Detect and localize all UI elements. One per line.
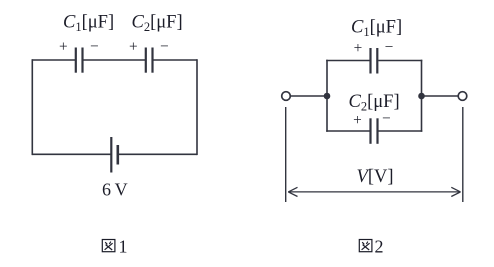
wire fig1 bottom-right segment [119,153,197,155]
svg-text:−: − [160,38,169,55]
svg-text:−: − [90,38,99,55]
svg-text:V[V]: V[V] [357,167,394,187]
svg-text:−: − [385,39,394,56]
node left junction [324,93,331,100]
svg-text:C1[μF]: C1[μF] [63,13,114,34]
wire fig2 top-right segment [378,60,422,62]
terminal left (fig2) [282,92,291,101]
svg-text:2: 2 [375,236,384,256]
svg-text:+: + [354,40,363,57]
capacitor C1 plates (fig2) [371,48,378,74]
wire fig2 right lead [422,95,459,97]
dimension extension line left [285,107,287,202]
svg-text:+: + [353,112,362,129]
svg-text:C2[μF]: C2[μF] [132,13,183,34]
wire fig1 top-middle segment [84,59,146,61]
svg-text:6 V: 6 V [102,180,128,200]
capacitor C2 plates (fig1) [146,48,153,73]
wire fig2 left lead [291,95,328,97]
wire fig2 loop left vertical [326,60,328,132]
svg-text:+: + [129,39,138,56]
caption Zu 2 (kanji drawn) [359,240,372,252]
wire fig1 bottom-left segment [32,153,110,155]
dimension arrow V [288,187,460,196]
svg-text:1: 1 [119,236,128,256]
wire fig2 bottom-right segment [379,130,423,132]
wire fig2 loop right vertical [421,60,423,132]
svg-text:C1[μF]: C1[μF] [351,17,402,39]
capacitor C2 plates (fig2) [371,118,378,144]
dimension extension line right [462,107,464,202]
caption Zu 1 (kanji drawn) [102,240,115,252]
wire fig1 top-left segment [32,59,75,61]
wire fig1 right vertical [196,59,198,155]
svg-text:C2[μF]: C2[μF] [349,92,400,114]
wire fig2 bottom-left segment [326,130,370,132]
node right junction [418,93,425,100]
battery 6V plates [111,137,118,173]
wire fig1 left vertical [31,59,33,155]
wire fig1 top-right segment [154,59,198,61]
terminal right (fig2) [458,92,467,101]
svg-text:−: − [382,110,391,127]
capacitor C1 plates (fig1) [76,48,83,73]
svg-text:+: + [59,39,68,56]
wire fig2 top-left segment [326,60,370,62]
